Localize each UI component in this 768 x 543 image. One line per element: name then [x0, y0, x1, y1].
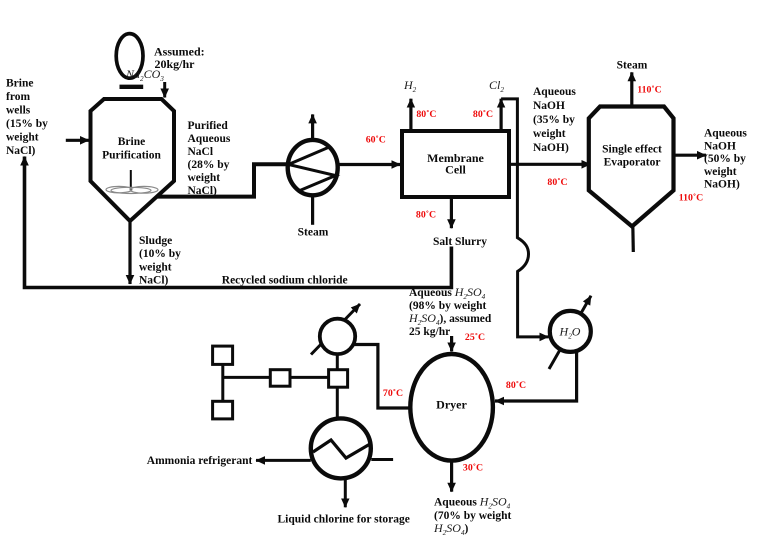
membrane cell box: [402, 131, 509, 197]
heat exchanger E1 internal zigzag: [289, 147, 336, 192]
membrane cell H2 vent arrow: [409, 99, 412, 131]
svg-text:wells: wells: [6, 105, 31, 117]
svg-text:(50% by: (50% by: [704, 153, 746, 165]
svg-text:Recycled sodium chloride: Recycled sodium chloride: [222, 275, 348, 287]
wire: ammonia refrigerant arrow left: [256, 459, 311, 462]
svg-text:Ammonia refrigerant: Ammonia refrigerant: [147, 455, 253, 467]
wire: pump P1 outlet to dryer (80C): [495, 352, 577, 401]
wire: exchanger to membrane cell arrow (60C): [337, 163, 401, 166]
chiller/condenser circle: [311, 418, 371, 478]
wire: purified NaCl pipe from purifier to heat exchanger: [157, 164, 290, 196]
svg-text:(15% by: (15% by: [6, 118, 48, 130]
svg-text:Purification: Purification: [102, 150, 161, 162]
wire: membrane cell to evaporator arrow (80C): [509, 163, 591, 166]
wire: sludge line down from purifier: [128, 219, 131, 284]
valve square D: [329, 370, 348, 388]
svg-text:weight: weight: [6, 132, 39, 144]
svg-text:from: from: [6, 91, 30, 103]
wire: valve C to valve D: [290, 376, 329, 379]
valve square C (middle): [270, 370, 290, 387]
wire: steam stub below exchanger: [311, 194, 314, 225]
svg-text:80˚C: 80˚C: [473, 109, 493, 120]
svg-text:Steam: Steam: [617, 60, 648, 72]
label: Sludge: [139, 235, 181, 287]
chiller internal zigzag: [313, 440, 370, 458]
wire: A-B vertical link: [221, 364, 224, 401]
wire: dryer left line up to compressor: [352, 345, 411, 409]
evaporator bottom stem: [631, 224, 635, 252]
label: Membrane Cell: [427, 151, 484, 177]
svg-text:Single effect: Single effect: [602, 144, 662, 156]
svg-text:Aqueous: Aqueous: [188, 133, 231, 145]
svg-text:Sludge: Sludge: [139, 235, 172, 247]
evaporator product arrow right (50% NaOH): [674, 154, 707, 157]
agitator blades (gray ellipses): [106, 186, 158, 193]
svg-text:Na2CO3: Na2CO3: [125, 67, 164, 83]
wire: chiller right stub: [371, 458, 393, 461]
label: Aqueous NaOH 35%: [533, 86, 576, 154]
evaporator steam arrow up: [630, 72, 633, 106]
label: Brine from wells: [6, 78, 48, 158]
label: Brine Purification: [102, 136, 161, 162]
svg-text:80˚C: 80˚C: [506, 380, 526, 391]
valve square A (top-left): [213, 346, 233, 364]
wire: link to valve C: [223, 376, 270, 379]
Na2CO3 feed arrow into tank: [163, 82, 166, 98]
pump P1 (H2O) circle: [550, 311, 591, 352]
svg-text:Salt Slurry: Salt Slurry: [433, 236, 487, 248]
svg-text:weight: weight: [533, 128, 566, 140]
wire: compressor down to valve D: [336, 354, 339, 370]
vessel: single effect evaporator: [589, 107, 674, 227]
svg-text:NaOH): NaOH): [704, 179, 740, 191]
wire: salt slurry arrow below membrane cell: [450, 197, 453, 228]
svg-text:(35% by: (35% by: [533, 114, 575, 126]
svg-text:weight: weight: [188, 172, 221, 184]
svg-text:Brine: Brine: [118, 136, 145, 148]
svg-text:NaOH): NaOH): [533, 142, 569, 154]
pump P1 (H2O) diagonal arrow: [549, 296, 591, 369]
agitator shaft: [130, 170, 132, 190]
wire: dryer bottom outlet arrow (30C): [450, 461, 453, 492]
svg-text:(28% by: (28% by: [188, 159, 230, 171]
label: Aqueous H2SO4 70%: [433, 495, 511, 538]
vessel: brine purification tank: [91, 99, 175, 221]
heat exchanger E1 circle: [288, 140, 338, 195]
svg-text:H2SO4), assumed: H2SO4), assumed: [408, 311, 492, 327]
svg-text:Aqueous: Aqueous: [704, 128, 747, 140]
svg-text:weight: weight: [704, 166, 737, 178]
svg-text:70˚C: 70˚C: [383, 388, 403, 399]
wire: brine feed arrow into purifier: [66, 139, 89, 142]
label: Aqueous NaOH 50%: [704, 128, 747, 191]
svg-text:25 kg/hr: 25 kg/hr: [409, 326, 450, 338]
svg-text:110˚C: 110˚C: [637, 85, 662, 96]
svg-text:Steam: Steam: [298, 227, 329, 239]
svg-text:(10% by: (10% by: [139, 248, 181, 260]
label: Assumed 20kg/hr: [154, 45, 205, 72]
svg-text:Evaporator: Evaporator: [604, 157, 661, 169]
svg-text:80˚C: 80˚C: [416, 109, 436, 120]
svg-text:Liquid chlorine for storage: Liquid chlorine for storage: [278, 514, 410, 526]
svg-text:110˚C: 110˚C: [679, 193, 704, 204]
svg-text:80˚C: 80˚C: [416, 210, 436, 221]
wire: dryer inlet arrow from H2SO4 feed: [450, 336, 453, 351]
compressor C1 diagonal arrow: [311, 304, 360, 355]
svg-text:Aqueous: Aqueous: [533, 86, 576, 98]
svg-text:Cell: Cell: [445, 163, 466, 177]
svg-text:NaCl): NaCl): [139, 275, 169, 287]
thick bar below hopper: [120, 85, 144, 89]
svg-text:NaCl): NaCl): [188, 185, 218, 197]
svg-text:NaCl: NaCl: [188, 146, 214, 158]
svg-text:Brine: Brine: [6, 78, 33, 90]
membrane cell Cl2 vent arrow: [500, 99, 503, 131]
wire: Cl2 bypass with bump, down to H2O pump: [501, 99, 548, 337]
label: Single effect Evaporator: [602, 144, 662, 169]
svg-text:weight: weight: [139, 261, 172, 273]
feed hopper ellipse (Na2CO3): [116, 34, 143, 79]
svg-text:NaOH: NaOH: [533, 100, 565, 112]
wire: liquid chlorine arrow down: [344, 478, 347, 507]
svg-text:Aqueous H2SO4: Aqueous H2SO4: [409, 285, 486, 301]
label: Aqueous H2SO4 98% feed: [408, 285, 492, 338]
compressor C1 circle: [320, 319, 355, 354]
wire: vapour arrow above exchanger: [311, 114, 314, 142]
svg-text:Dryer: Dryer: [436, 398, 467, 412]
svg-text:30˚C: 30˚C: [463, 462, 483, 473]
svg-text:60˚C: 60˚C: [366, 135, 386, 146]
svg-text:Aqueous H2SO4: Aqueous H2SO4: [434, 495, 511, 511]
svg-text:20kg/hr: 20kg/hr: [155, 57, 196, 71]
svg-text:NaOH: NaOH: [704, 140, 736, 152]
wire: valve D down to chiller: [336, 387, 339, 420]
svg-text:80˚C: 80˚C: [547, 177, 567, 188]
valve square B (bottom-left): [213, 401, 233, 419]
svg-text:25˚C: 25˚C: [465, 332, 485, 343]
wire: recycled sodium chloride line (bottom horizontal + left vertical up): [25, 157, 452, 288]
label: Purified Aqueous NaCl: [188, 120, 231, 197]
vessel: dryer ellipse: [410, 354, 493, 461]
svg-text:Purified: Purified: [188, 120, 229, 132]
svg-text:NaCl): NaCl): [6, 145, 36, 157]
